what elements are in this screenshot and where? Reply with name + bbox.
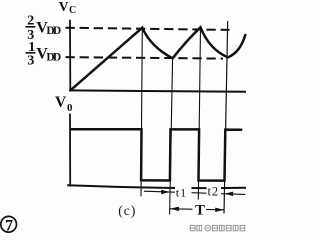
dashed threshold line 1/3 VDD — [66, 57, 224, 59]
svg-text:T: T — [195, 202, 205, 218]
label V_C — [59, 0, 76, 16]
dashed threshold line 2/3 VDD — [66, 28, 230, 30]
svg-text:DD: DD — [46, 51, 61, 63]
svg-text:(c): (c) — [118, 203, 135, 218]
bottom graph y-axis — [69, 114, 71, 187]
label 1/3 VDD — [26, 40, 62, 69]
vertical guide line D (trough 2 / period end) — [224, 21, 228, 214]
svg-text:7: 7 — [5, 217, 13, 234]
vertical guide line B (trough 1) — [170, 58, 173, 214]
svg-text:0: 0 — [67, 102, 73, 114]
vertical guide line C (peak 2) — [198, 28, 200, 200]
svg-text:V: V — [59, 0, 69, 14]
white gap for label T — [193, 203, 207, 216]
top graph x-axis — [69, 90, 246, 91]
arrow pointing right at B — [161, 190, 170, 194]
vertical guide line A (peak 1) — [141, 28, 142, 196]
svg-text:t2: t2 — [208, 185, 220, 199]
bottom graph x-axis — [67, 185, 246, 188]
output square wave V_0 — [71, 129, 243, 180]
white gap for label t2 — [207, 186, 222, 198]
svg-text:V: V — [55, 94, 67, 111]
label V_0 — [55, 94, 73, 114]
label 2/3 VDD — [26, 14, 62, 43]
svg-text:3: 3 — [27, 54, 34, 69]
t1/t2 dimension line with leaders — [144, 191, 245, 194]
watermark (blurred grey CJK text imitation) — [190, 225, 245, 231]
capacitor voltage waveform V_C — [70, 27, 245, 90]
white gap for label t1 — [175, 187, 192, 199]
circled figure number 7 — [1, 216, 17, 234]
T dimension line with inward arrows — [170, 209, 225, 210]
svg-text:C: C — [69, 5, 76, 16]
arrow pointing left at D — [224, 192, 233, 196]
svg-text:DD: DD — [46, 25, 61, 37]
top graph y-axis — [69, 20, 71, 91]
svg-text:t1: t1 — [176, 186, 187, 200]
